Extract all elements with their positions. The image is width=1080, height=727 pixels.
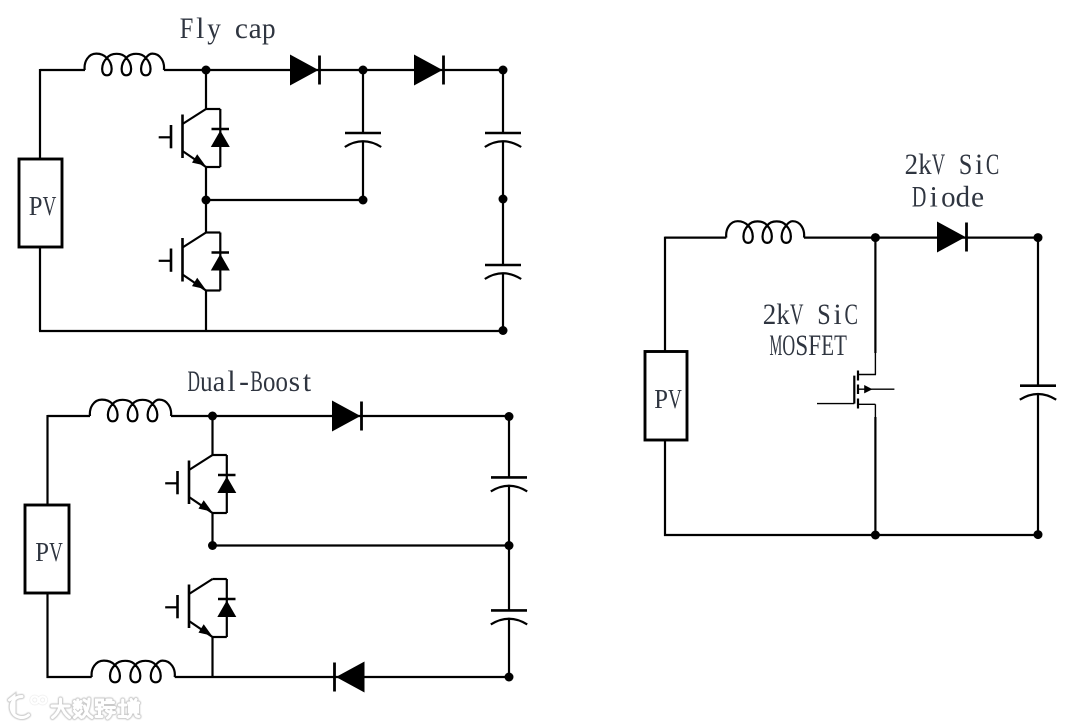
svg-text:o: o [263, 366, 275, 398]
svg-text:V: V [932, 149, 945, 181]
svg-text:C: C [844, 299, 857, 331]
svg-text:D: D [188, 366, 200, 398]
svg-text:a: a [213, 366, 225, 398]
svg-text:V: V [49, 536, 63, 567]
svg-text:T: T [834, 330, 847, 362]
svg-text:2: 2 [905, 149, 918, 181]
svg-text:d: d [956, 182, 971, 214]
svg-text:p: p [262, 13, 276, 45]
svg-text:y: y [207, 13, 221, 45]
svg-text:S: S [817, 299, 830, 331]
svg-text:V: V [790, 299, 803, 331]
svg-text:S: S [795, 330, 808, 362]
svg-text:B: B [250, 366, 262, 398]
svg-text:o: o [276, 366, 288, 398]
svg-text:a: a [249, 13, 262, 45]
svg-text:t: t [303, 366, 312, 398]
svg-text:F: F [180, 13, 194, 45]
svg-text:u: u [200, 366, 213, 398]
svg-text:P: P [29, 190, 43, 221]
svg-text:-: - [239, 366, 249, 398]
svg-text:c: c [235, 13, 248, 45]
svg-text:O: O [782, 330, 795, 362]
svg-text:C: C [986, 149, 999, 181]
svg-text:E: E [821, 330, 834, 362]
svg-text:l: l [227, 366, 235, 398]
svg-text:D: D [912, 182, 926, 214]
svg-text:o: o [941, 182, 955, 214]
svg-text:P: P [654, 383, 668, 414]
svg-text:l: l [196, 13, 204, 45]
svg-text:i: i [930, 182, 938, 214]
svg-text:e: e [971, 182, 984, 214]
svg-text:s: s [289, 366, 300, 398]
svg-text:k: k [776, 299, 790, 331]
svg-text:M: M [769, 330, 782, 362]
svg-text:2: 2 [763, 299, 776, 331]
svg-text:i: i [975, 149, 983, 181]
svg-text:V: V [668, 383, 682, 414]
svg-text:F: F [808, 330, 821, 362]
svg-text:k: k [918, 149, 932, 181]
svg-text:S: S [959, 149, 972, 181]
svg-text:P: P [35, 536, 49, 567]
svg-text:i: i [833, 299, 841, 331]
svg-text:V: V [43, 190, 57, 221]
